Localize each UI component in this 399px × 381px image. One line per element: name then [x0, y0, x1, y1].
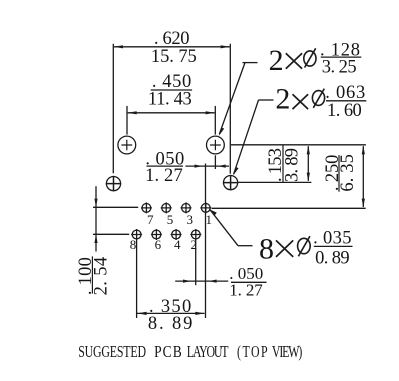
svg-text:8. 89: 8. 89 — [148, 314, 193, 334]
svg-text:0. 89: 0. 89 — [315, 248, 350, 268]
svg-text:15. 75: 15. 75 — [151, 47, 197, 67]
svg-text:3: 3 — [187, 212, 194, 227]
svg-text:LAYOUT: LAYOUT — [187, 343, 229, 361]
svg-text:(TOP: (TOP — [237, 343, 268, 361]
svg-text:SUGGESTED: SUGGESTED — [78, 343, 146, 361]
svg-text:3. 25: 3. 25 — [322, 57, 357, 77]
svg-text:8: 8 — [130, 237, 137, 252]
svg-text:4: 4 — [174, 237, 181, 252]
svg-text:2: 2 — [269, 44, 284, 77]
svg-text:1. 27: 1. 27 — [229, 280, 263, 299]
svg-text:. 035: . 035 — [313, 229, 351, 249]
svg-text:6: 6 — [155, 237, 162, 252]
svg-text:8: 8 — [259, 232, 274, 265]
svg-text:5: 5 — [167, 212, 174, 227]
svg-text:6. 35: 6. 35 — [338, 154, 358, 192]
svg-text:2: 2 — [191, 237, 198, 252]
svg-text:1. 27: 1. 27 — [145, 166, 183, 186]
svg-text:7: 7 — [147, 212, 154, 227]
svg-text:1: 1 — [206, 212, 213, 227]
svg-text:2: 2 — [275, 83, 290, 116]
svg-text:PCB: PCB — [154, 344, 182, 361]
svg-text:11. 43: 11. 43 — [148, 89, 192, 109]
svg-text:VIEW): VIEW) — [272, 343, 303, 361]
svg-text:3. 89: 3. 89 — [283, 148, 303, 182]
svg-text:2. 54: 2. 54 — [92, 257, 112, 296]
svg-text:1. 60: 1. 60 — [327, 101, 362, 121]
svg-text:. 620: . 620 — [154, 29, 190, 49]
